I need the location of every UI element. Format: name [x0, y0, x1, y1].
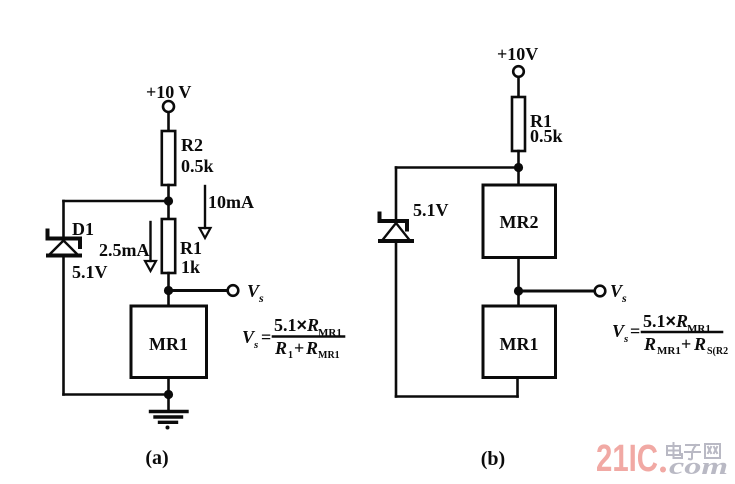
varistor MR1 (b) — [483, 306, 556, 378]
wire — [62, 201, 65, 236]
svg-text:5.1×R: 5.1×R — [643, 311, 688, 331]
svg-text:R1: R1 — [180, 238, 202, 258]
wire — [169, 289, 228, 292]
wire — [516, 378, 519, 397]
svg-text:MR1: MR1 — [657, 345, 681, 357]
svg-text:R: R — [693, 334, 706, 354]
junction node (a) top — [164, 196, 173, 205]
formula (b) — [612, 311, 728, 357]
wire — [167, 378, 170, 395]
svg-text:MR1: MR1 — [500, 334, 539, 354]
wire — [517, 258, 520, 307]
svg-text:21IC: 21IC — [596, 438, 658, 480]
svg-text:D1: D1 — [72, 219, 94, 239]
svg-text:1: 1 — [288, 350, 293, 361]
svg-text:s: s — [623, 333, 628, 345]
svg-text:5.1V: 5.1V — [72, 262, 108, 282]
svg-text:0.5k: 0.5k — [181, 156, 214, 176]
svg-text:+10V: +10V — [497, 44, 538, 64]
svg-text:MR1: MR1 — [318, 350, 340, 361]
current arrow 10mA — [200, 186, 211, 238]
wire — [517, 77, 520, 97]
resistor R1 (b) — [512, 97, 525, 151]
junction node ground (a) — [164, 390, 173, 399]
svg-text:1k: 1k — [181, 257, 200, 277]
terminal +10V (a) — [163, 101, 174, 112]
terminal Vs (a) — [228, 285, 239, 296]
svg-text:S(R2: S(R2 — [707, 346, 728, 357]
svg-text:=: = — [261, 327, 271, 347]
wire — [396, 395, 518, 398]
svg-text:2.5mA: 2.5mA — [99, 240, 150, 260]
ground — [151, 395, 188, 430]
zener diode D1 — [48, 231, 81, 256]
svg-text:=: = — [630, 321, 640, 341]
logo 电子网 — [667, 443, 720, 459]
zener diode VD (b) — [380, 214, 413, 242]
terminal +10V (b) — [513, 66, 524, 77]
svg-text:(b): (b) — [481, 448, 505, 470]
junction node Vs (b) — [514, 286, 523, 295]
wire — [167, 113, 170, 132]
resistor R1 (a) — [162, 219, 175, 273]
svg-text:s: s — [621, 291, 627, 305]
svg-text:(a): (a) — [145, 447, 168, 469]
svg-text:R2: R2 — [181, 135, 203, 155]
wire — [167, 273, 170, 306]
label Vs (b) — [610, 281, 627, 305]
wire — [395, 242, 398, 397]
wire — [517, 151, 520, 185]
svg-text:R: R — [274, 338, 287, 358]
logo dot — [660, 467, 666, 473]
wire — [519, 290, 595, 293]
svg-text:MR1: MR1 — [149, 334, 188, 354]
svg-text:5.1V: 5.1V — [413, 200, 449, 220]
junction node (b) top — [514, 163, 523, 172]
svg-text:R: R — [305, 338, 318, 358]
svg-text:s: s — [258, 291, 264, 305]
svg-text:+10 V: +10 V — [146, 82, 191, 102]
svg-text:R: R — [643, 334, 656, 354]
svg-text:+: + — [294, 338, 304, 358]
wire — [396, 166, 519, 169]
terminal Vs (b) — [595, 286, 606, 297]
svg-text:com: com — [669, 454, 728, 480]
svg-text:0.5k: 0.5k — [530, 126, 563, 146]
wire — [64, 393, 169, 396]
svg-text:5.1×R: 5.1×R — [274, 315, 319, 335]
wire — [64, 200, 169, 203]
current arrow 2.5mA — [145, 222, 156, 271]
wire — [167, 185, 170, 219]
varistor MR1 (a) — [131, 306, 207, 378]
junction node Vs (a) — [164, 286, 173, 295]
svg-text:s: s — [253, 339, 258, 351]
svg-text:+: + — [681, 334, 691, 354]
formula (a) — [242, 315, 344, 361]
wire — [395, 168, 398, 220]
resistor R2 — [162, 131, 175, 185]
varistor MR2 — [483, 185, 556, 258]
wire — [62, 257, 65, 395]
label Vs (a) — [247, 281, 264, 305]
svg-text:MR2: MR2 — [500, 212, 539, 232]
svg-text:10mA: 10mA — [208, 192, 254, 212]
